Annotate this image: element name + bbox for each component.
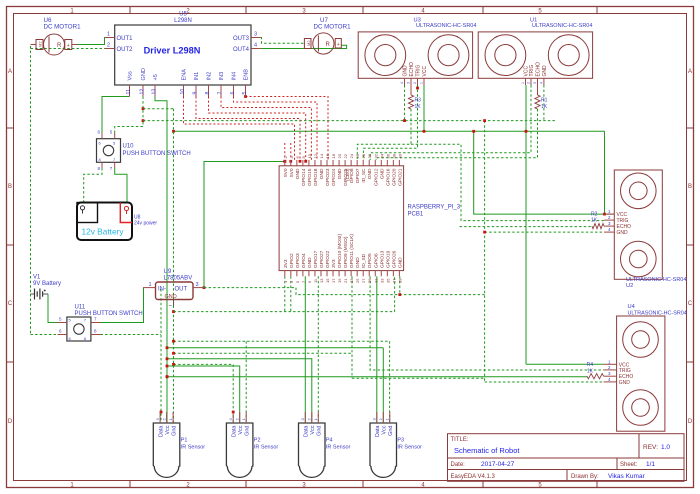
wire U3 ECHO pre-resistor: [410, 85, 412, 95]
svg-text:OUT: OUT: [175, 286, 188, 292]
junction vcc bus start: [172, 130, 175, 133]
U9 pin 1 stub: [143, 287, 156, 289]
svg-text:GPIO19: GPIO19: [385, 250, 391, 268]
PCB1 bottom pin 3V3 stub: [332, 271, 334, 277]
op-amp U5 driver L298N box: [115, 25, 251, 85]
svg-text:~: ~: [169, 304, 173, 310]
P4 pin Vcc stub: [311, 412, 313, 423]
svg-text:Data: Data: [159, 425, 165, 438]
wire PCB1 3V3 down dashed: [284, 276, 286, 311]
svg-text:30: 30: [367, 153, 372, 158]
junction U3 GND bus: [403, 119, 406, 122]
U5 pin IN4 stub: [233, 85, 235, 97]
wire red stub pin4 dashed: [290, 143, 292, 158]
svg-text:21: 21: [343, 278, 348, 283]
svg-text:24v power: 24v power: [134, 221, 157, 227]
svg-text:12: 12: [140, 89, 146, 95]
PCB1 bottom pin GPIO2 stub: [290, 271, 292, 277]
svg-text:ULTRASONIC-HC-SR04: ULTRASONIC-HC-SR04: [626, 277, 686, 283]
svg-text:17: 17: [331, 278, 336, 283]
svg-text:Gnd: Gnd: [317, 426, 323, 436]
push button switch U10: [97, 139, 121, 163]
wire driver signal 3 red dashed: [221, 97, 311, 161]
PCB1 top pin GPIO25 stub: [344, 160, 346, 166]
frame tick bottom: [596, 481, 598, 488]
svg-text:A: A: [688, 69, 692, 75]
svg-text:TITLE:: TITLE:: [451, 437, 469, 443]
wire P1 Data dashed: [160, 289, 162, 423]
svg-text:D: D: [8, 419, 13, 425]
U9 pin 3 stub: [193, 287, 204, 289]
svg-text:P3: P3: [397, 438, 404, 444]
svg-text:3: 3: [254, 32, 257, 38]
svg-text:U5: U5: [179, 12, 187, 18]
svg-text:V1: V1: [33, 275, 41, 281]
svg-text:1: 1: [420, 82, 424, 84]
svg-text:ENB: ENB: [244, 69, 250, 81]
frame tick left: [7, 244, 14, 246]
svg-text:19: 19: [337, 278, 342, 283]
wire OUT3 to U7 dashed: [261, 38, 305, 44]
svg-text:IR Sensor: IR Sensor: [254, 445, 279, 451]
resistor R4: [587, 374, 604, 379]
PCB1 top pin GPIO15 stub: [308, 160, 310, 166]
svg-text:29: 29: [367, 278, 372, 283]
svg-text:Gnd: Gnd: [245, 426, 251, 436]
U1 pin VCC stub: [525, 78, 527, 85]
wire ir gnd bus1 dashed: [174, 340, 390, 342]
wire P3 Data solid: [376, 276, 378, 423]
svg-text:IR Sensor: IR Sensor: [181, 445, 206, 451]
U5 pin 2 stub: [105, 48, 115, 50]
svg-text:R: R: [57, 43, 62, 49]
PCB1 top pin GPIO8 stub: [350, 160, 352, 166]
svg-text:2017-04-27: 2017-04-27: [481, 461, 515, 468]
wire U2 GND dashed: [485, 231, 604, 233]
svg-text:PUSH BUTTON SWITCH: PUSH BUTTON SWITCH: [123, 151, 191, 157]
PCB1 top pin GPIO7 stub: [356, 160, 358, 166]
wire U1 VCC to U4 VCC: [526, 363, 604, 365]
svg-text:GND: GND: [403, 65, 409, 77]
wire U9 GND down dashed: [173, 306, 175, 424]
wire +5 pin13 down: [155, 97, 167, 424]
svg-text:P1: P1: [181, 438, 188, 444]
wire V1 plus to U11 pin5: [48, 294, 58, 323]
frame tick bottom: [482, 481, 484, 488]
PCB1 bottom pin 3V3 stub: [284, 271, 286, 277]
U2 pin ECHO stub: [604, 225, 614, 227]
junction GND12 bus: [142, 119, 145, 122]
wire ir gnd bus2 dashed: [174, 352, 353, 354]
wire P4 Data solid: [304, 276, 306, 423]
svg-text:ULTRASONIC-HC-SR04: ULTRASONIC-HC-SR04: [628, 311, 687, 317]
battery U8 12v: [77, 203, 132, 241]
junction U2 VCC corner: [603, 213, 606, 216]
svg-text:GPIO10 (MOSI): GPIO10 (MOSI): [337, 233, 343, 268]
svg-text:GND: GND: [141, 68, 147, 80]
wire P3 Vcc down: [382, 348, 384, 423]
svg-text:32: 32: [373, 153, 378, 158]
U10 inner pin numbers: [99, 141, 117, 163]
PCB1 bottom pin GPIO9 (MISO) stub: [344, 271, 346, 277]
svg-text:IR Sensor: IR Sensor: [326, 445, 351, 451]
wire U6+ to OUT1: [78, 38, 106, 45]
frame tick right: [687, 361, 694, 363]
PCB1 top pin GPIO16 stub: [386, 160, 388, 166]
svg-text:GPIO27: GPIO27: [319, 250, 325, 268]
svg-text:3: 3: [407, 82, 411, 84]
svg-text:Vcc: Vcc: [165, 425, 171, 434]
P3 pin Data stub: [376, 412, 378, 423]
svg-text:D: D: [688, 419, 693, 425]
frame tick right: [687, 127, 694, 129]
wire U3 VCC down: [423, 85, 425, 131]
svg-text:DC MOTOR1: DC MOTOR1: [44, 24, 82, 31]
wire pcb gnd down x352 dashed: [351, 276, 353, 378]
wire Vss to U10: [102, 97, 130, 134]
svg-text:IN3: IN3: [219, 72, 225, 81]
PCB1 bottom pin GPIO22 stub: [326, 271, 328, 277]
frame tick left: [7, 127, 14, 129]
IR sensor P3: [370, 423, 397, 477]
U10 pin 8 stub: [101, 162, 103, 168]
svg-text:10: 10: [180, 89, 186, 95]
svg-text:37: 37: [391, 278, 396, 283]
svg-text:Date:: Date:: [451, 462, 466, 468]
PCB1 top pin GND stub: [368, 160, 370, 166]
PCB1 top pin GND stub: [320, 160, 322, 166]
junction ir vcc bus1: [166, 346, 169, 349]
svg-text:36: 36: [385, 153, 390, 158]
svg-text:3V3: 3V3: [331, 259, 337, 268]
U5 pin 3 stub: [251, 37, 261, 39]
U10 pin 6 stub: [101, 133, 103, 139]
P1 pin Vcc stub: [166, 412, 168, 423]
P2 pin Gnd stub: [245, 412, 247, 423]
svg-text:ULTRASONIC-HC-SR04: ULTRASONIC-HC-SR04: [416, 23, 476, 29]
svg-text:GPIO22: GPIO22: [325, 250, 331, 268]
svg-text:GPIO9 (MISO): GPIO9 (MISO): [343, 236, 349, 268]
U5 pin GND stub: [142, 85, 144, 97]
resistor R1: [535, 95, 540, 109]
svg-text:31: 31: [373, 278, 378, 283]
PCB1 bottom pin GPIO27 stub: [320, 271, 322, 277]
PCB1 bottom pin GPIO13 stub: [380, 271, 382, 277]
PCB1 bottom pin GPIO19 stub: [386, 271, 388, 277]
wire U10 pin8 to battery dashed: [84, 168, 102, 203]
svg-text:GND: GND: [397, 257, 403, 268]
wire gnd jog dashed: [143, 108, 174, 110]
P1 pin Data stub: [159, 412, 161, 423]
svg-text:22: 22: [343, 153, 348, 158]
wire V1 minus down dashed: [30, 294, 32, 335]
junction PCB1 pin4 red: [289, 160, 292, 163]
svg-text:P4: P4: [326, 438, 333, 444]
U9 pin 2 GND stub: [173, 300, 175, 306]
U2 pin TRIG stub: [604, 219, 614, 221]
svg-text:GPIO3: GPIO3: [295, 253, 301, 268]
svg-text:16: 16: [325, 153, 330, 158]
wire U6- left vertical dashed: [30, 46, 32, 294]
svg-text:ID_SC: ID_SC: [361, 168, 367, 183]
svg-text:EasyEDA V4.1.3: EasyEDA V4.1.3: [451, 474, 496, 480]
U11 pin 7 stub: [91, 322, 101, 324]
svg-text:14: 14: [319, 153, 324, 158]
wire U1 GND down dashed: [543, 85, 545, 121]
wire P2 Gnd down dashed: [245, 341, 247, 423]
wire U4 TRIG dashed: [370, 276, 603, 370]
wire driver signal 6 red dashed: [184, 97, 295, 161]
wire driver signal 4 red dashed: [209, 97, 306, 161]
wire ir data bus dashed: [174, 364, 234, 423]
junction U3 TRIG pin: [416, 87, 419, 90]
PCB1 bottom pin GPIO4 stub: [302, 271, 304, 277]
junction ir vcc bus3: [166, 365, 169, 368]
wire U2 ECHO dashed: [460, 226, 593, 228]
svg-text:R: R: [326, 42, 331, 48]
svg-text:9: 9: [193, 92, 199, 95]
svg-text:5: 5: [242, 92, 248, 95]
svg-text:25: 25: [355, 278, 360, 283]
frame tick top: [482, 7, 484, 14]
svg-text:OUT3: OUT3: [233, 36, 250, 42]
wire gnd bus y120 dashed: [143, 120, 556, 122]
PCB1 top pin GND stub: [338, 160, 340, 166]
svg-text:B: B: [688, 184, 692, 190]
dc motor U7: [304, 33, 341, 54]
P3 pin Gnd stub: [389, 412, 391, 423]
svg-text:35: 35: [385, 278, 390, 283]
svg-text:TRIG: TRIG: [529, 64, 535, 76]
wire gnd run to U4 dashed: [352, 377, 485, 379]
svg-text:C: C: [8, 301, 13, 307]
P1 pin Gnd stub: [172, 412, 174, 423]
svg-text:27: 27: [361, 278, 366, 283]
svg-text:GPIO7: GPIO7: [355, 168, 361, 183]
wire driver signal 1 red dashed: [246, 97, 329, 161]
junction PCB1 5V0 pin: [283, 160, 286, 163]
resistor R2: [592, 224, 604, 229]
IR sensor P1: [153, 423, 180, 477]
svg-text:28: 28: [361, 153, 366, 158]
svg-text:R3: R3: [415, 98, 422, 104]
ultrasonic sensor U4: [617, 316, 665, 431]
wire OUT2 bus dashed: [31, 48, 106, 50]
svg-text:PCB1: PCB1: [408, 212, 424, 218]
op-amp PCB1 raspberry pi box: [279, 166, 404, 271]
junction U4 echo start: [166, 375, 169, 378]
wire U6- to V1 minus: [31, 293, 35, 295]
svg-text:GPIO11 (SCLK): GPIO11 (SCLK): [349, 234, 355, 268]
U4 pin ECHO stub: [604, 375, 617, 377]
svg-text:Vcc: Vcc: [382, 425, 388, 434]
frame tick top: [362, 7, 364, 14]
svg-text:PUSH BUTTON SWITCH: PUSH BUTTON SWITCH: [75, 311, 143, 317]
svg-text:GND: GND: [542, 65, 548, 77]
svg-text:1: 1: [107, 32, 110, 38]
U5 pin IN1 stub: [195, 85, 197, 97]
svg-text:IR Sensor: IR Sensor: [397, 445, 422, 451]
svg-text:(CE0): (CE0): [345, 168, 351, 181]
wire vcc bus y131: [174, 130, 605, 132]
wire U9 OUT dashed right: [204, 288, 485, 295]
svg-text:1: 1: [149, 282, 152, 288]
wire U4 GND dashed: [485, 381, 604, 383]
wire P3 Gnd down dashed: [389, 341, 391, 423]
U5 pin ENB stub: [245, 85, 247, 97]
svg-text:GPIO12: GPIO12: [373, 168, 379, 186]
svg-text:1/1: 1/1: [646, 461, 655, 468]
svg-text:GPIO13: GPIO13: [379, 250, 385, 268]
junction PCB1 pin2 red: [283, 160, 286, 163]
svg-text:GND: GND: [367, 168, 373, 179]
svg-text:1.0: 1.0: [661, 444, 670, 451]
svg-text:OUT2: OUT2: [117, 47, 134, 53]
wire U2 VCC aux: [474, 131, 604, 214]
junction U2 GND branch: [483, 231, 486, 234]
PCB1 top pin GPIO14 stub: [302, 160, 304, 166]
svg-text:R4: R4: [587, 362, 594, 368]
svg-text:M2: M2: [306, 40, 311, 46]
junction U9 OUT: [203, 286, 206, 289]
frame tick top: [129, 7, 131, 14]
U2 pin VCC stub: [604, 213, 614, 215]
PCB1 top pin GPIO23 stub: [326, 160, 328, 166]
frame tick bottom: [129, 481, 131, 488]
svg-text:IN2: IN2: [207, 72, 213, 81]
junction P1 Data: [160, 411, 163, 414]
U11 pin 6 stub: [58, 334, 67, 336]
frame tick bottom: [362, 481, 364, 488]
U1 pin GND stub: [543, 78, 545, 85]
svg-text:1K: 1K: [587, 369, 594, 375]
svg-text:Sheet:: Sheet:: [620, 462, 638, 468]
svg-text:3V3: 3V3: [283, 259, 289, 268]
PCB1 bottom pin GPIO3 stub: [296, 271, 298, 277]
svg-text:GND: GND: [379, 168, 385, 179]
svg-text:L298N: L298N: [174, 18, 192, 24]
svg-text:+5: +5: [153, 74, 159, 80]
push button switch U11: [67, 317, 91, 341]
wire U3 TRIG staircase dashed: [363, 85, 417, 160]
U5 pin +5 stub: [154, 85, 156, 97]
junction echo bus: [483, 119, 486, 122]
frame tick right: [687, 244, 694, 246]
PCB1 top pin GPIO12 stub: [374, 160, 376, 166]
U4 pin GND stub: [604, 381, 617, 383]
svg-text:GND: GND: [165, 294, 177, 300]
junction 5v dashed: [398, 293, 401, 296]
svg-text:Driver L298N: Driver L298N: [144, 46, 201, 56]
ultrasonic sensor U2: [614, 170, 662, 279]
svg-text:Gnd: Gnd: [388, 426, 394, 436]
svg-text:2: 2: [413, 82, 417, 84]
svg-text:1K: 1K: [541, 104, 548, 110]
svg-text:24: 24: [349, 153, 354, 158]
svg-text:8: 8: [205, 92, 211, 95]
P4 pin Data stub: [304, 412, 306, 423]
wire ir vcc bus1: [167, 347, 383, 349]
wire U10 pin5 to gnd bus dashed: [115, 121, 143, 133]
svg-text:GPIO2: GPIO2: [289, 253, 295, 268]
svg-text:6: 6: [230, 92, 236, 95]
wire driver signal 2 red dashed: [234, 97, 318, 161]
svg-text:VCC: VCC: [422, 66, 428, 77]
U5 pin IN3 stub: [220, 85, 222, 97]
svg-text:3: 3: [533, 82, 537, 84]
svg-text:M2: M2: [38, 41, 43, 47]
svg-text:+: +: [337, 42, 340, 48]
wire P4 Gnd long dashed: [317, 276, 319, 423]
svg-text:4: 4: [254, 43, 257, 49]
wire red stub pin2 dashed: [284, 143, 286, 158]
svg-text:B: B: [8, 184, 12, 190]
PCB1 bottom pin GPIO6 stub: [374, 271, 376, 277]
U10 pin 7 stub: [114, 162, 116, 168]
frame tick left: [7, 361, 14, 363]
wire gnd vertical x173 dashed: [173, 109, 175, 300]
svg-text:GPIO4: GPIO4: [301, 253, 307, 268]
svg-text:Gnd: Gnd: [172, 426, 178, 436]
svg-text:OUT1: OUT1: [117, 36, 134, 42]
svg-text:IN-: IN-: [158, 286, 166, 292]
junction ir gnd bus1: [172, 340, 175, 343]
svg-text:GPIO20: GPIO20: [391, 168, 397, 186]
junction U2 VCC aux top: [472, 130, 475, 133]
wire PCB1 gnd2 down dashed: [290, 276, 292, 311]
U5 pin IN2 stub: [208, 85, 210, 97]
U5 pin Vss stub: [129, 85, 131, 97]
wire U11 pin7 to U9 IN: [101, 288, 144, 323]
svg-text:GND: GND: [617, 230, 629, 236]
PCB1 top pin GPIO20 stub: [392, 160, 394, 166]
svg-text:U4: U4: [628, 304, 635, 310]
ultrasonic sensor U3: [358, 32, 472, 78]
wire driver signal 5 red dashed: [196, 97, 300, 161]
U3 pin ECHO stub: [410, 78, 412, 85]
ultrasonic sensor U1: [478, 32, 592, 78]
svg-text:GPIO14: GPIO14: [301, 168, 307, 186]
svg-text:TRIG: TRIG: [416, 64, 422, 76]
U2 pin GND stub: [604, 231, 614, 233]
PCB1 bottom pin GPIO26 stub: [392, 271, 394, 277]
svg-text:33: 33: [379, 278, 384, 283]
U1 pin ECHO stub: [537, 78, 539, 85]
svg-text:Vcc: Vcc: [238, 425, 244, 434]
svg-text:GPIO16: GPIO16: [385, 168, 391, 186]
wire U10 pin7 to battery plus: [115, 168, 127, 203]
wire U9 OUT up to PCB1 5V0: [204, 160, 285, 288]
wire U11 pin8 dashed right: [101, 334, 162, 336]
junction U9 GND bus: [172, 310, 175, 313]
wire U1 TRIG staircase dashed: [370, 85, 531, 160]
resistor R3: [408, 95, 413, 109]
junction stair IN1: [299, 160, 302, 163]
svg-text:GND: GND: [355, 257, 361, 268]
svg-text:IN4: IN4: [232, 72, 238, 81]
svg-text:U11: U11: [75, 305, 86, 311]
svg-text:13: 13: [152, 89, 158, 95]
svg-text:IN1: IN1: [194, 72, 200, 81]
PCB1 top pin GND stub: [380, 160, 382, 166]
svg-text:11: 11: [126, 89, 132, 94]
U1 pin TRIG stub: [530, 78, 532, 85]
junction ENB pin: [244, 95, 247, 98]
svg-text:Vss: Vss: [128, 71, 134, 81]
svg-text:40: 40: [397, 153, 402, 158]
svg-text:GPIO18: GPIO18: [313, 168, 319, 186]
PCB1 bottom pin GND stub: [308, 271, 310, 277]
